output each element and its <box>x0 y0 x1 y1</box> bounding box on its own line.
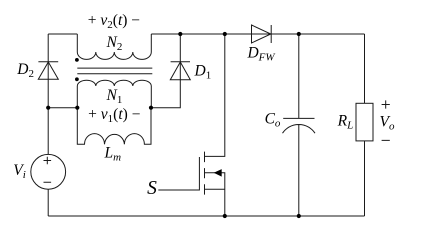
svg-text:Co: Co <box>265 111 281 130</box>
svg-text:D2: D2 <box>16 61 34 80</box>
svg-text:DFW: DFW <box>246 45 275 64</box>
svg-text:S: S <box>147 178 157 199</box>
svg-text:D1: D1 <box>194 62 212 81</box>
svg-text:N2: N2 <box>105 34 122 53</box>
svg-text:+ v1(t) −: + v1(t) − <box>88 106 140 125</box>
svg-text:Vo: Vo <box>380 114 395 133</box>
svg-text:+ v2(t) −: + v2(t) − <box>88 12 140 31</box>
svg-text:Lm: Lm <box>104 144 122 163</box>
svg-text:Vi: Vi <box>13 162 26 181</box>
svg-text:RL: RL <box>337 113 354 132</box>
svg-text:N1: N1 <box>105 87 122 106</box>
